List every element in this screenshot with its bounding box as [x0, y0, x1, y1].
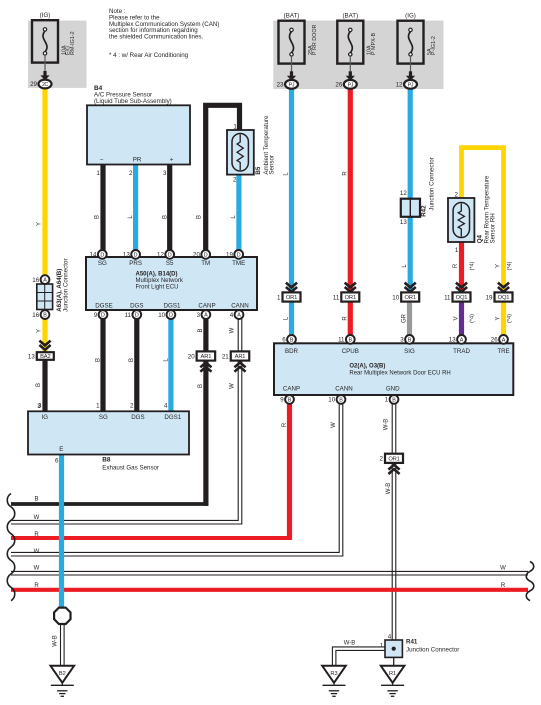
svg-text:OQ1: OQ1 [456, 295, 468, 301]
svg-text:(*4): (*4) [470, 261, 476, 270]
svg-text:R: R [34, 583, 39, 589]
svg-text:A: A [502, 338, 506, 344]
svg-text:Y: Y [37, 222, 43, 226]
svg-text:Rear Multiplex Network Door EC: Rear Multiplex Network Door ECU RH [349, 371, 450, 377]
svg-text:Sensor RH: Sensor RH [489, 213, 496, 243]
svg-text:B: B [198, 328, 204, 332]
svg-text:GND: GND [386, 386, 400, 393]
svg-text:R: R [501, 583, 506, 589]
svg-text:Multiplex Network: Multiplex Network [136, 278, 184, 284]
svg-text:3: 3 [197, 312, 201, 319]
svg-text:GR: GR [401, 313, 407, 323]
svg-text:Front Light ECU: Front Light ECU [136, 285, 179, 291]
svg-text:(Liquid Tube Sub-Assembly): (Liquid Tube Sub-Assembly) [94, 98, 172, 105]
svg-text:(BAT): (BAT) [284, 12, 300, 19]
svg-text:26: 26 [491, 337, 498, 344]
svg-text:R1: R1 [389, 671, 396, 677]
svg-text:W: W [34, 515, 40, 521]
svg-text:B: B [339, 398, 343, 404]
svg-text:PJ: PJ [408, 82, 414, 88]
svg-text:2: 2 [233, 176, 237, 183]
svg-text:IG: IG [42, 414, 49, 421]
svg-text:W: W [230, 327, 236, 333]
svg-text:2: 2 [130, 403, 134, 410]
svg-text:TRAD: TRAD [453, 348, 470, 355]
svg-text:1: 1 [385, 397, 389, 404]
svg-text:B: B [162, 215, 168, 219]
svg-text:PJ: PJ [289, 82, 295, 88]
svg-text:(BAT): (BAT) [342, 12, 358, 19]
svg-text:P MPX-B: P MPX-B [371, 33, 377, 55]
svg-text:A50(A), B14(D): A50(A), B14(D) [136, 271, 178, 277]
svg-text:16: 16 [32, 312, 39, 319]
svg-text:26: 26 [335, 82, 342, 89]
svg-text:V: V [453, 316, 459, 320]
svg-text:PR: PR [133, 157, 142, 164]
svg-text:DGSE: DGSE [95, 303, 113, 310]
svg-text:2C: 2C [42, 82, 49, 88]
svg-text:1: 1 [233, 124, 237, 131]
svg-text:B: B [43, 313, 47, 319]
svg-text:A: A [43, 278, 47, 284]
svg-text:Y: Y [37, 329, 43, 333]
svg-text:W-B: W-B [383, 419, 389, 431]
svg-text:11: 11 [338, 337, 345, 344]
svg-text:(IG): (IG) [40, 12, 51, 19]
svg-text:B8: B8 [102, 457, 111, 464]
svg-text:B: B [288, 398, 292, 404]
svg-text:TM: TM [201, 260, 210, 267]
svg-text:12: 12 [400, 190, 407, 197]
svg-text:23: 23 [277, 82, 284, 89]
svg-text:1: 1 [96, 403, 100, 410]
svg-text:6: 6 [55, 458, 59, 465]
svg-text:Q4: Q4 [476, 234, 483, 243]
svg-text:11: 11 [333, 294, 340, 301]
svg-text:3: 3 [163, 170, 167, 177]
svg-text:10: 10 [392, 294, 399, 301]
svg-text:CANP: CANP [198, 303, 215, 310]
svg-text:DGS1: DGS1 [164, 414, 181, 421]
svg-text:4: 4 [230, 312, 234, 319]
svg-text:W: W [500, 566, 506, 572]
svg-text:DGS: DGS [131, 414, 144, 421]
svg-text:PJ: PJ [348, 82, 354, 88]
svg-text:B: B [129, 358, 135, 362]
svg-text:Junction Connector: Junction Connector [406, 647, 459, 654]
svg-text:Junction Connector: Junction Connector [63, 258, 70, 311]
svg-text:RM-IG1-2: RM-IG1-2 [70, 31, 76, 55]
svg-text:B5: B5 [255, 166, 262, 174]
svg-text:DGS1: DGS1 [164, 303, 181, 310]
svg-text:B: B [290, 338, 294, 344]
svg-text:B: B [34, 496, 38, 502]
svg-text:21: 21 [222, 353, 229, 360]
svg-text:CANN: CANN [231, 303, 249, 310]
svg-text:R42: R42 [421, 205, 428, 217]
svg-text:4: 4 [164, 403, 168, 410]
svg-text:R: R [34, 532, 39, 538]
svg-text:1: 1 [380, 642, 384, 649]
svg-text:B: B [36, 383, 42, 387]
svg-text:CANN: CANN [335, 386, 353, 393]
svg-text:AR1: AR1 [201, 354, 212, 360]
svg-text:−: − [100, 157, 104, 164]
svg-text:OR1: OR1 [388, 456, 399, 462]
svg-text:R41: R41 [406, 639, 418, 646]
svg-text:E: E [59, 446, 63, 453]
svg-text:P RR DOOR: P RR DOOR [312, 24, 318, 55]
svg-text:6: 6 [282, 337, 286, 344]
svg-text:R: R [453, 263, 459, 268]
svg-text:D: D [134, 253, 138, 259]
svg-text:13: 13 [400, 219, 407, 226]
svg-text:OQ1: OQ1 [498, 295, 510, 301]
svg-text:TRE: TRE [497, 348, 509, 355]
svg-text:D: D [135, 313, 139, 319]
svg-text:D: D [168, 253, 172, 259]
svg-text:B: B [348, 338, 352, 344]
svg-text:(*4): (*4) [507, 314, 513, 323]
svg-text:W-B: W-B [386, 483, 392, 495]
svg-text:2: 2 [129, 170, 133, 177]
svg-text:OR1: OR1 [286, 295, 297, 301]
svg-text:D: D [169, 313, 173, 319]
svg-text:19: 19 [486, 294, 493, 301]
svg-text:+: + [170, 157, 174, 164]
svg-text:1: 1 [277, 294, 281, 301]
svg-text:9: 9 [94, 312, 98, 319]
svg-text:A: A [204, 313, 208, 319]
svg-text:R: R [282, 422, 288, 427]
svg-text:B: B [198, 384, 204, 388]
svg-text:CPUB: CPUB [342, 348, 359, 355]
svg-text:P-IG1-2: P-IG1-2 [431, 36, 437, 55]
svg-text:SG: SG [99, 414, 108, 421]
svg-text:12: 12 [157, 252, 164, 259]
svg-text:OR1: OR1 [405, 295, 416, 301]
svg-text:3: 3 [38, 403, 42, 410]
svg-text:SG: SG [98, 260, 107, 267]
svg-text:PRS: PRS [129, 260, 142, 267]
svg-text:B: B [96, 358, 102, 362]
svg-text:B: B [408, 338, 412, 344]
svg-text:9: 9 [280, 397, 284, 404]
svg-text:2: 2 [454, 191, 458, 198]
svg-text:the shielded Communication lin: the shielded Communication lines. [109, 34, 204, 41]
svg-text:20: 20 [188, 353, 195, 360]
svg-text:13: 13 [28, 353, 35, 360]
svg-text:19: 19 [226, 252, 233, 259]
svg-text:B: B [197, 215, 203, 219]
svg-text:W-B: W-B [344, 641, 356, 647]
svg-text:CANP: CANP [283, 386, 300, 393]
svg-text:14: 14 [90, 252, 97, 259]
svg-text:11: 11 [125, 312, 132, 319]
svg-text:Junction Connector: Junction Connector [429, 157, 436, 210]
svg-text:O2(A), O3(B): O2(A), O3(B) [349, 364, 385, 370]
svg-text:Exhaust Gas Sensor: Exhaust Gas Sensor [102, 464, 159, 471]
svg-text:* 4 : w/ Rear Air Conditioning: * 4 : w/ Rear Air Conditioning [109, 52, 189, 59]
svg-text:A: A [460, 338, 464, 344]
svg-text:W: W [34, 566, 40, 572]
svg-text:TME: TME [232, 260, 245, 267]
svg-text:D: D [101, 313, 105, 319]
svg-text:11: 11 [444, 294, 451, 301]
svg-text:2: 2 [380, 456, 384, 463]
svg-text:BDR: BDR [285, 348, 299, 355]
svg-text:R: R [342, 316, 348, 321]
svg-text:(*4): (*4) [470, 314, 476, 323]
svg-text:16: 16 [32, 277, 39, 284]
svg-text:12: 12 [396, 82, 403, 89]
svg-text:29: 29 [30, 81, 37, 88]
svg-text:A: A [237, 313, 241, 319]
svg-text:W: W [230, 383, 236, 389]
svg-text:B: B [392, 398, 396, 404]
svg-text:B2: B2 [59, 671, 66, 677]
svg-text:1: 1 [455, 247, 459, 254]
svg-text:AR1: AR1 [235, 354, 246, 360]
svg-text:(*4): (*4) [507, 261, 513, 270]
svg-text:BA2: BA2 [40, 354, 50, 360]
svg-text:OR1: OR1 [345, 295, 356, 301]
svg-text:D: D [204, 253, 208, 259]
svg-text:R3: R3 [330, 671, 337, 677]
svg-text:10: 10 [328, 397, 335, 404]
svg-text:W: W [331, 422, 337, 428]
svg-text:S5: S5 [166, 260, 174, 267]
svg-text:W-B: W-B [52, 635, 58, 647]
svg-text:B: B [95, 215, 101, 219]
svg-text:SIG: SIG [404, 348, 415, 355]
svg-text:13: 13 [449, 337, 456, 344]
svg-text:W: W [34, 549, 40, 555]
svg-text:13: 13 [123, 252, 130, 259]
svg-text:Sensor: Sensor [269, 155, 276, 175]
svg-text:D: D [237, 253, 241, 259]
svg-text:1: 1 [96, 170, 100, 177]
svg-text:R: R [342, 171, 348, 176]
svg-text:Y: Y [495, 264, 501, 268]
svg-text:(IG): (IG) [405, 12, 416, 19]
svg-text:4: 4 [388, 633, 392, 640]
svg-text:Y: Y [495, 316, 501, 320]
svg-text:3: 3 [400, 337, 404, 344]
svg-text:DGS: DGS [130, 303, 143, 310]
svg-text:D: D [100, 253, 104, 259]
svg-text:10: 10 [158, 312, 165, 319]
svg-text:20: 20 [193, 252, 200, 259]
